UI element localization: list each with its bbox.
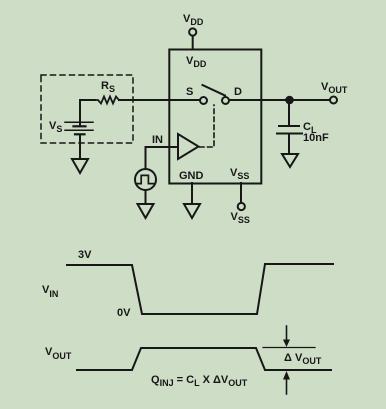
pulse source V1 bbox=[135, 147, 156, 204]
power terminal VDD (top) bbox=[189, 28, 196, 49]
svg-text:VDD: VDD bbox=[183, 13, 204, 27]
ground (CL) bbox=[282, 154, 298, 167]
capacitor CL bbox=[277, 104, 302, 154]
wire RS to S pin bbox=[119, 99, 200, 101]
waveform VIN trace bbox=[67, 264, 333, 314]
svg-text:VSS: VSS bbox=[230, 167, 249, 181]
delta reference line bbox=[263, 347, 315, 349]
terminal VSS bbox=[238, 183, 245, 210]
svg-text:0V: 0V bbox=[117, 307, 131, 319]
svg-text:RS: RS bbox=[101, 80, 115, 94]
switch S1 bbox=[200, 85, 229, 104]
IC box U1 bbox=[169, 50, 261, 184]
terminal VOUT bbox=[330, 97, 337, 104]
svg-text:VSS: VSS bbox=[231, 211, 250, 225]
ground (GND pin) bbox=[184, 204, 200, 218]
wire D to VOUT bbox=[229, 99, 330, 101]
svg-text:Δ VOUT: Δ VOUT bbox=[284, 352, 322, 366]
wire GND pin bbox=[191, 183, 193, 204]
op-amp buffer U2 bbox=[178, 134, 199, 159]
svg-text:VDD: VDD bbox=[186, 55, 207, 69]
svg-text:IN: IN bbox=[152, 134, 163, 146]
wire battery to resistor bbox=[80, 100, 95, 126]
svg-text:VOUT: VOUT bbox=[321, 81, 348, 95]
svg-text:S: S bbox=[186, 86, 193, 98]
svg-text:VS: VS bbox=[49, 120, 62, 134]
svg-text:QINJ = CL X ΔVOUT: QINJ = CL X ΔVOUT bbox=[151, 374, 248, 388]
svg-text:VOUT: VOUT bbox=[45, 346, 72, 361]
svg-text:10nF: 10nF bbox=[303, 132, 329, 144]
svg-text:GND: GND bbox=[179, 170, 204, 182]
resistor RS bbox=[95, 97, 119, 104]
arrow down (delta top) bbox=[286, 326, 288, 341]
dashed source box bbox=[41, 75, 133, 143]
waveform VOUT trace bbox=[77, 348, 331, 370]
wire IN bbox=[146, 146, 179, 148]
arrow up (delta bottom) bbox=[286, 379, 288, 394]
battery VS bbox=[65, 122, 93, 134]
svg-text:3V: 3V bbox=[78, 249, 92, 261]
wire battery to ground bbox=[79, 135, 81, 160]
ground (VS) bbox=[72, 159, 88, 173]
dashed control line bbox=[200, 105, 215, 147]
svg-text:VIN: VIN bbox=[42, 284, 58, 299]
junction node bbox=[285, 96, 294, 105]
ground (pulse source) bbox=[138, 204, 154, 218]
svg-text:D: D bbox=[234, 86, 242, 98]
